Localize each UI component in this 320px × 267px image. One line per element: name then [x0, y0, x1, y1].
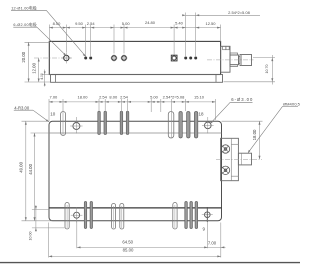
- top slot S4 (filled): [120, 111, 123, 134]
- dim texts upper row: [53, 10, 251, 26]
- left dim 49.00: [25, 121, 27, 221]
- svg-text:2.54: 2.54: [120, 94, 129, 99]
- elevated dim line 2.54x2=5.08: [186, 14, 260, 16]
- bottom slot S17 (filled): [190, 202, 193, 229]
- baseplate right divider: [215, 75, 217, 83]
- svg-text:4-R3.00: 4-R3.00: [14, 105, 30, 110]
- svg-text:20.00: 20.00: [21, 51, 26, 62]
- right dim 10.70 line: [271, 55, 273, 85]
- svg-text:12.50: 12.50: [205, 21, 216, 26]
- svg-text:9: 9: [203, 227, 206, 232]
- inner ledge line bottom (dark): [49, 207, 222, 209]
- label underline 1: [11, 9, 47, 11]
- ext a: [150, 99, 152, 112]
- lug inner line: [241, 153, 243, 165]
- svg-text:ØM4X0.5: ØM4X0.5: [283, 101, 300, 106]
- bottom slot S14 (open): [120, 204, 124, 230]
- svg-text:64.50: 64.50: [122, 239, 133, 244]
- ext S4: [120, 99, 122, 135]
- dim 10.00 line: [35, 205, 37, 231]
- top slot S2 (filled): [98, 111, 101, 134]
- bottom slot S13 (open): [112, 204, 116, 230]
- label underline: [14, 109, 33, 111]
- svg-text:5.00: 5.00: [122, 21, 131, 26]
- label underline: [230, 101, 252, 103]
- bottom dim 85.00 line: [49, 255, 221, 257]
- bottom slot S12 (filled): [90, 202, 92, 229]
- ext strip bottom left: [25, 81, 51, 83]
- svg-text:18.00: 18.00: [77, 94, 88, 99]
- baseplate strip: [51, 75, 223, 83]
- arrows lower dims: [25, 101, 261, 258]
- lug axis centerline: [207, 59, 254, 61]
- top slot S9 (filled): [194, 112, 197, 139]
- ext top edge left: [22, 120, 50, 122]
- svg-text:4.00: 4.00: [40, 73, 44, 80]
- leader to corner: [33, 110, 48, 121]
- pad P6 circle: [172, 56, 176, 60]
- ext pin2: [85, 25, 87, 57]
- svg-text:5.00: 5.00: [150, 94, 159, 99]
- bottom slot S16 (filled): [185, 202, 188, 229]
- neck: [239, 57, 241, 64]
- ring tab bottom: [230, 65, 238, 67]
- terminal block (plan): [221, 138, 239, 180]
- svg-text:9.50: 9.50: [75, 21, 84, 26]
- dim texts lower top row: [50, 94, 205, 99]
- lug axis centerline (plan): [216, 158, 262, 160]
- label underline: [283, 105, 299, 107]
- svg-text:10.00: 10.00: [28, 232, 32, 241]
- pin P1 (6-Ø2.00): [62, 53, 72, 64]
- ext S3: [104, 99, 106, 135]
- pin row centerline: [34, 57, 72, 59]
- leader to hole H2: [211, 102, 231, 123]
- svg-text:49.00: 49.00: [19, 161, 24, 172]
- left rotated dims: [21, 51, 44, 80]
- ext pin3: [90, 25, 92, 57]
- block notch line top: [231, 143, 238, 145]
- mounting hole H2: [202, 117, 214, 134]
- svg-text:5.40: 5.40: [175, 21, 184, 26]
- ext hole H4 down: [207, 218, 209, 249]
- top slot S5 (filled): [126, 111, 129, 134]
- svg-text:6-Ø2.00电极: 6-Ø2.00电极: [13, 22, 37, 27]
- bottom dim 64.50 line: [77, 246, 208, 248]
- bottom slot S18 (filled): [195, 202, 198, 229]
- svg-text:85.00: 85.00: [123, 247, 134, 252]
- ext ledge left: [31, 132, 50, 134]
- top dim line: [49, 27, 220, 29]
- ext pin9 tall: [195, 13, 197, 57]
- ext strip bottom right: [224, 81, 276, 83]
- top slot S3 (filled): [104, 111, 107, 134]
- svg-text:18: 18: [199, 112, 205, 117]
- top slot S8 (filled): [187, 112, 190, 139]
- ext hole H3 down: [76, 219, 78, 249]
- ext strip top left: [42, 74, 51, 76]
- ext bottom edge left: [22, 220, 53, 222]
- svg-text:10: 10: [50, 111, 56, 116]
- ext S6: [171, 99, 173, 138]
- ext pad6: [173, 25, 175, 55]
- svg-text:18.00: 18.00: [252, 129, 257, 140]
- ext pin1: [65, 25, 67, 53]
- left dim 20.00 line: [28, 42, 30, 82]
- block notch line bottom: [231, 175, 238, 177]
- bottom dim 7.00 line: [208, 246, 226, 248]
- ext top edge right: [222, 120, 263, 122]
- svg-text:8.50: 8.50: [53, 21, 62, 26]
- ext line left edge up: [48, 25, 50, 42]
- mounting hole H1: [70, 117, 82, 134]
- pin P9 (filled): [194, 57, 197, 60]
- ext block right: [215, 99, 217, 120]
- top slot S1 (open capsule): [61, 112, 66, 136]
- ext slot S1: [62, 99, 64, 136]
- bottom dim texts: [122, 239, 216, 252]
- block inner column line: [230, 138, 232, 180]
- pad P6 square: [171, 55, 177, 61]
- lug body: [240, 55, 252, 66]
- leader to lug: [248, 106, 282, 152]
- screw head A on block: [223, 46, 226, 49]
- arrows top dim row: [28, 14, 274, 85]
- svg-text:10.70: 10.70: [265, 65, 269, 74]
- ring tab top: [230, 53, 238, 55]
- svg-text:12-Ø1.00电极: 12-Ø1.00电极: [11, 6, 37, 11]
- svg-text:7.00: 7.00: [208, 241, 217, 246]
- ext right edge down: [220, 223, 222, 258]
- module outline (rounded): [49, 121, 222, 221]
- module body outline: [49, 41, 220, 74]
- bottom slot S11 (filled): [84, 202, 86, 229]
- svg-text:24.80: 24.80: [145, 20, 156, 25]
- ext right edge up: [220, 25, 222, 42]
- bottom page rule: [0, 262, 300, 264]
- label underline 2: [13, 26, 37, 28]
- ext pin row right: [253, 57, 275, 59]
- svg-text:15.10: 15.10: [194, 94, 205, 99]
- pin P2 (signal, filled): [84, 57, 87, 60]
- svg-text:44.00: 44.00: [28, 163, 33, 174]
- screw head B on block: [226, 46, 229, 49]
- left dim 4.00 line: [44, 70, 46, 87]
- ext b: [160, 99, 162, 112]
- left dim 12.00 line: [38, 58, 40, 82]
- svg-text:2.54*2=5.08: 2.54*2=5.08: [163, 94, 185, 99]
- bottom slot S10 (open): [65, 203, 69, 230]
- right dim 18.00 line: [259, 121, 261, 159]
- ext corner up: [48, 99, 50, 121]
- top dim line: [49, 101, 216, 103]
- baseplate left divider: [55, 75, 57, 83]
- svg-text:2.54: 2.54: [87, 21, 96, 26]
- svg-text:2.54*2=5.08: 2.54*2=5.08: [228, 10, 250, 15]
- svg-text:8.00: 8.00: [109, 94, 118, 99]
- screw T2: [221, 166, 229, 174]
- bottom slot S15 (open): [173, 203, 177, 230]
- ring section main: [230, 55, 239, 65]
- pin P3 (signal, filled): [89, 57, 92, 60]
- svg-text:2.54: 2.54: [99, 94, 108, 99]
- left dim 44.00: [34, 133, 36, 221]
- lug (plan): [238, 153, 251, 165]
- screw T1: [221, 145, 229, 153]
- pin P5: [120, 54, 127, 61]
- ext c: [184, 99, 186, 111]
- ext pin tip left: [32, 227, 65, 229]
- mounting hole H3: [71, 207, 83, 223]
- ext dark line left: [32, 208, 49, 210]
- pin P7 (filled): [184, 57, 187, 60]
- svg-text:12.00: 12.00: [32, 62, 37, 73]
- ext pin5: [123, 25, 125, 54]
- lug inner line side: [241, 55, 243, 66]
- top slot S6 (open capsule wide): [168, 112, 174, 139]
- ext pin4: [113, 25, 115, 54]
- svg-text:7.00: 7.00: [50, 94, 59, 99]
- top slot S7 (filled): [179, 112, 182, 139]
- pin P4: [110, 54, 117, 61]
- ext left edge down: [48, 223, 50, 258]
- inner ledge line top: [49, 132, 222, 134]
- leader to pin P1: [37, 27, 66, 55]
- left rotated dim texts: [19, 129, 258, 240]
- ext S5: [127, 99, 129, 135]
- terminal block (side view): [221, 46, 230, 72]
- ext S2: [98, 99, 100, 135]
- pin P8 (filled): [189, 57, 192, 60]
- ext body top left: [25, 41, 50, 43]
- ext pin7 tall: [185, 13, 187, 57]
- leader to pin P2: [47, 11, 86, 56]
- mounting hole H4: [202, 207, 213, 222]
- svg-text:6-Ø3.00: 6-Ø3.00: [231, 97, 253, 102]
